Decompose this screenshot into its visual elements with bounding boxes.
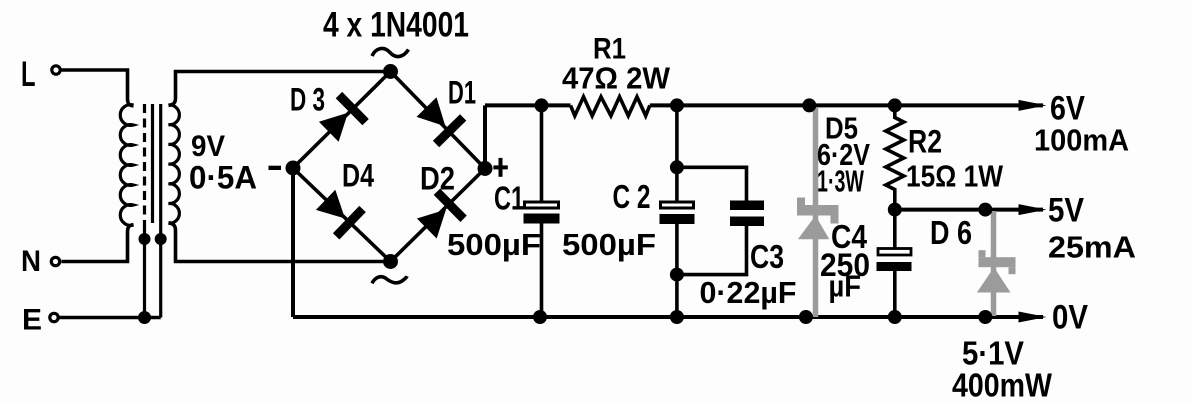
svg-text:µF: µF — [829, 269, 862, 304]
svg-text:C3: C3 — [750, 238, 784, 275]
capacitor C1 — [540, 105, 544, 201]
terminal L — [52, 66, 60, 74]
svg-text:0·22µF: 0·22µF — [700, 275, 797, 310]
svg-text:1·3W: 1·3W — [817, 164, 864, 199]
node D6 bottom — [978, 310, 992, 324]
node E junction — [138, 311, 151, 324]
wire bridge minus down to 0V rail — [291, 168, 295, 317]
node C3 branch bottom — [670, 268, 684, 282]
terminal E — [50, 313, 58, 321]
5V line — [895, 208, 1043, 212]
node C4 bottom — [888, 310, 902, 324]
svg-text:C 2: C 2 — [613, 178, 651, 215]
node screen dot right — [155, 233, 167, 245]
capacitor C4 — [893, 210, 897, 248]
svg-text:C1: C1 — [494, 180, 524, 217]
diode D2 — [417, 210, 446, 239]
svg-text:D1: D1 — [448, 75, 476, 111]
node D6 top — [978, 203, 992, 217]
svg-text:0·5A: 0·5A — [189, 160, 257, 196]
AC tilde bottom — [372, 276, 407, 283]
top rail right segment — [650, 103, 1043, 107]
svg-text:15Ω 1W: 15Ω 1W — [906, 159, 1004, 194]
resistor R1 — [571, 97, 650, 116]
transformer core line 2 to E — [159, 104, 162, 318]
svg-text:5V: 5V — [1048, 192, 1084, 230]
svg-text:D2: D2 — [420, 161, 455, 197]
svg-text:25mA: 25mA — [1048, 230, 1136, 265]
capacitor C3 branch wires — [677, 167, 747, 200]
arrow 0V output — [1019, 312, 1047, 323]
arrow 5V output — [1019, 204, 1047, 215]
node screen dot left — [139, 233, 151, 245]
node R2 top — [888, 98, 902, 112]
svg-text:100mA: 100mA — [1034, 123, 1129, 158]
diode D4 — [316, 190, 345, 219]
svg-text:N: N — [21, 245, 41, 278]
svg-text:L: L — [21, 55, 36, 94]
transformer T1 secondary winding — [169, 105, 180, 223]
zener D5 (grey) — [813, 107, 819, 317]
svg-text:400mW: 400mW — [952, 367, 1053, 402]
plus sign — [493, 165, 507, 169]
wire secondary bottom to bridge AC bottom — [169, 223, 391, 262]
node C1 bottom — [533, 310, 547, 324]
bridge rectifier diamond wires — [293, 72, 485, 262]
minus sign — [269, 166, 282, 170]
svg-text:9V: 9V — [191, 130, 225, 163]
node bridge top — [383, 64, 398, 79]
terminal N — [51, 257, 59, 265]
node bridge right — [478, 161, 493, 176]
node R2 bottom / 5V junction — [888, 203, 902, 217]
node D5 bottom — [799, 310, 813, 324]
zener D6 (grey) — [991, 211, 997, 316]
AC tilde top — [372, 48, 409, 56]
wire L to primary — [62, 70, 134, 106]
svg-text:R2: R2 — [908, 124, 942, 160]
svg-text:500µF: 500µF — [562, 227, 656, 262]
bottom rail 0V — [293, 315, 1043, 319]
diode D3 — [319, 113, 348, 142]
transformer core line — [151, 104, 154, 223]
node D5 top — [802, 98, 816, 112]
node bridge left — [286, 161, 301, 176]
transformer T1 primary winding — [120, 105, 133, 226]
svg-text:500µF: 500µF — [447, 227, 541, 262]
transformer screen (dashed) — [143, 104, 146, 224]
diode D1 — [417, 97, 446, 126]
capacitor C3 — [730, 201, 764, 211]
node C1 top — [535, 98, 549, 112]
wire E to screen — [60, 316, 161, 320]
node bridge bottom — [383, 254, 398, 269]
svg-text:D4: D4 — [342, 158, 374, 194]
wire screen to E — [143, 224, 146, 318]
svg-text:D 3: D 3 — [290, 82, 325, 118]
arrow 6V output — [1019, 100, 1047, 111]
wire primary to N — [62, 225, 134, 262]
svg-text:0V: 0V — [1052, 299, 1088, 337]
wire secondary top to bridge AC top — [169, 72, 391, 106]
svg-text:47Ω 2W: 47Ω 2W — [562, 61, 671, 96]
wire bridge plus up to top rail — [483, 105, 487, 168]
svg-text:D 6: D 6 — [930, 214, 972, 251]
svg-text:E: E — [22, 304, 42, 337]
node C2 top — [670, 98, 684, 112]
resistor R2 — [886, 105, 904, 209]
node C2 bottom — [670, 310, 684, 324]
svg-text:4 x 1N4001: 4 x 1N4001 — [323, 6, 469, 45]
node C3 branch top — [670, 160, 684, 174]
capacitor C2 — [675, 105, 679, 201]
top rail 6V left segment — [485, 103, 571, 107]
